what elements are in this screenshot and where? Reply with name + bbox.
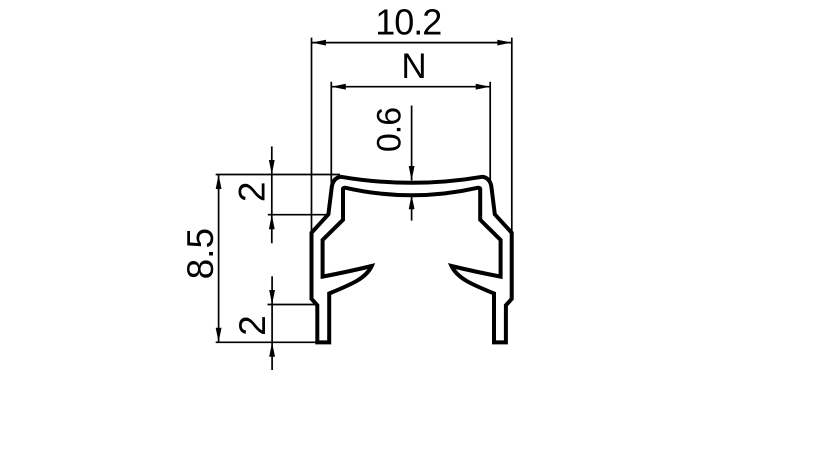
svg-text:N: N bbox=[401, 47, 426, 86]
extension line top (y=174.5) bbox=[216, 174, 340, 176]
arrow 2 top lower (pointing up) bbox=[269, 215, 275, 230]
arrow 2 bottom lower (pointing up) bbox=[269, 342, 275, 357]
extension line bottom (y=342.3) bbox=[216, 341, 319, 343]
arrow N left bbox=[331, 84, 346, 90]
arrow 10.2 right bbox=[497, 40, 512, 46]
extension line N right bbox=[489, 82, 491, 184]
extension line 10.2 left bbox=[311, 38, 313, 232]
arrow 8.5 bottom (pointing down) bbox=[216, 328, 222, 343]
svg-text:0.6: 0.6 bbox=[370, 108, 408, 152]
svg-text:2: 2 bbox=[231, 182, 272, 203]
arrow 2 bottom upper (pointing down) bbox=[269, 290, 275, 305]
extension line N left bbox=[330, 82, 332, 184]
dimension line 8.5 bbox=[218, 175, 220, 343]
svg-text:10.2: 10.2 bbox=[375, 2, 441, 43]
dimension line 0.6 lower leader bbox=[411, 195, 413, 221]
extension line leg top (y=304.5) bbox=[268, 304, 317, 306]
dimension line 2 bottom bbox=[271, 276, 273, 370]
arrow N right bbox=[476, 84, 491, 90]
extension line 10.2 right bbox=[511, 38, 513, 232]
arrow 2 top upper (pointing down) bbox=[269, 160, 275, 175]
arrow 8.5 top (pointing up) bbox=[216, 175, 222, 190]
dimension line 10.2 bbox=[312, 42, 512, 44]
arrow 0.6 upper (pointing down) bbox=[409, 166, 415, 181]
dimension line 0.6 upper leader bbox=[411, 106, 413, 181]
profile outline (extrusion cross-section) bbox=[312, 177, 512, 343]
arrow 10.2 left bbox=[312, 40, 327, 46]
svg-text:8.5: 8.5 bbox=[180, 228, 221, 279]
extension line shoulder (y=214.7) bbox=[268, 214, 329, 216]
dimension line N bbox=[331, 86, 490, 88]
dimension line 2 top bbox=[271, 146, 273, 243]
svg-text:2: 2 bbox=[232, 315, 273, 336]
arrow 0.6 lower (pointing up) bbox=[409, 195, 415, 210]
